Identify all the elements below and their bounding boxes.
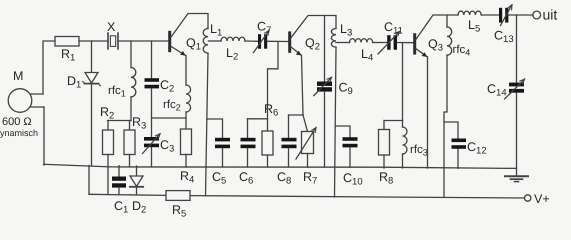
- resistor R1: [55, 37, 79, 47]
- capacitor C3 (variable): [144, 137, 159, 141]
- transistor Q1: [168, 31, 171, 52]
- inductor L2: [221, 37, 245, 41]
- wire rails left join: [88, 166, 90, 195]
- capacitor C11 (variable, series): [387, 35, 390, 50]
- inductor L3: [331, 29, 336, 48]
- ground: [505, 175, 528, 177]
- svg-text:X: X: [107, 20, 116, 34]
- wire R6/C6: [248, 118, 268, 120]
- resistor R8: [383, 121, 385, 130]
- resistor R4: [181, 129, 192, 155]
- resistor R3: [129, 121, 131, 131]
- inductor rfc4: [446, 15, 448, 27]
- resistor R2: [107, 121, 109, 131]
- V+ terminal: [525, 195, 531, 201]
- resistor R6: [267, 119, 269, 131]
- capacitor C5: [207, 119, 223, 138]
- inductor rfc1: [130, 41, 132, 68]
- svg-text:dynamisch: dynamisch: [0, 128, 38, 138]
- inductor L4: [349, 39, 372, 43]
- wire bias R2 R3: [108, 120, 132, 122]
- capacitor C2: [151, 41, 153, 78]
- ground rail: [44, 164, 517, 168]
- crystal X: [108, 33, 118, 49]
- inductor L1: [203, 29, 208, 54]
- capacitor C14 (variable): [516, 15, 518, 82]
- capacitor C7 (variable, series): [258, 34, 261, 49]
- inductor rfc3: [402, 121, 404, 128]
- wire mic bottom to ground rail: [43, 107, 45, 165]
- capacitor C1: [118, 166, 120, 177]
- transistor Q3: [413, 33, 416, 54]
- capacitor C12: [444, 122, 458, 138]
- capacitor C10: [335, 126, 350, 137]
- capacitor C8: [289, 114, 304, 116]
- svg-text:uit: uit: [543, 7, 558, 23]
- wire junction to R8/rfc3: [402, 43, 404, 121]
- V+ rail: [89, 194, 525, 198]
- wire L3 down to V+ rail: [335, 47, 337, 197]
- microphone M: [8, 89, 32, 113]
- svg-text:M: M: [13, 69, 23, 83]
- capacitor C9 (variable): [324, 16, 326, 82]
- inductor L5: [458, 11, 481, 15]
- inductor rfc2 on Q1 emitter: [185, 56, 187, 86]
- svg-text:V+: V+: [534, 192, 550, 206]
- capacitor C6: [247, 119, 249, 138]
- wire mic top to R1: [43, 41, 55, 94]
- wire Q1 stage to L2: [209, 40, 222, 42]
- diode D2: [136, 166, 138, 176]
- output terminal uit: [533, 11, 541, 19]
- svg-text:600 Ω: 600 Ω: [2, 116, 32, 128]
- wire L3 to L4: [336, 42, 350, 44]
- resistor R7 (adjustable): [303, 115, 308, 132]
- capacitor C13 (variable, series): [499, 8, 502, 23]
- wire junction to R6: [268, 42, 279, 119]
- diode D1: [91, 41, 93, 73]
- wire L1 down to V+ rail: [206, 53, 209, 196]
- wire C2-C3 junction to emitter line: [152, 117, 187, 119]
- resistor R5: [166, 191, 190, 201]
- Q2 emitter line: [302, 56, 304, 116]
- transistor Q2: [288, 31, 291, 52]
